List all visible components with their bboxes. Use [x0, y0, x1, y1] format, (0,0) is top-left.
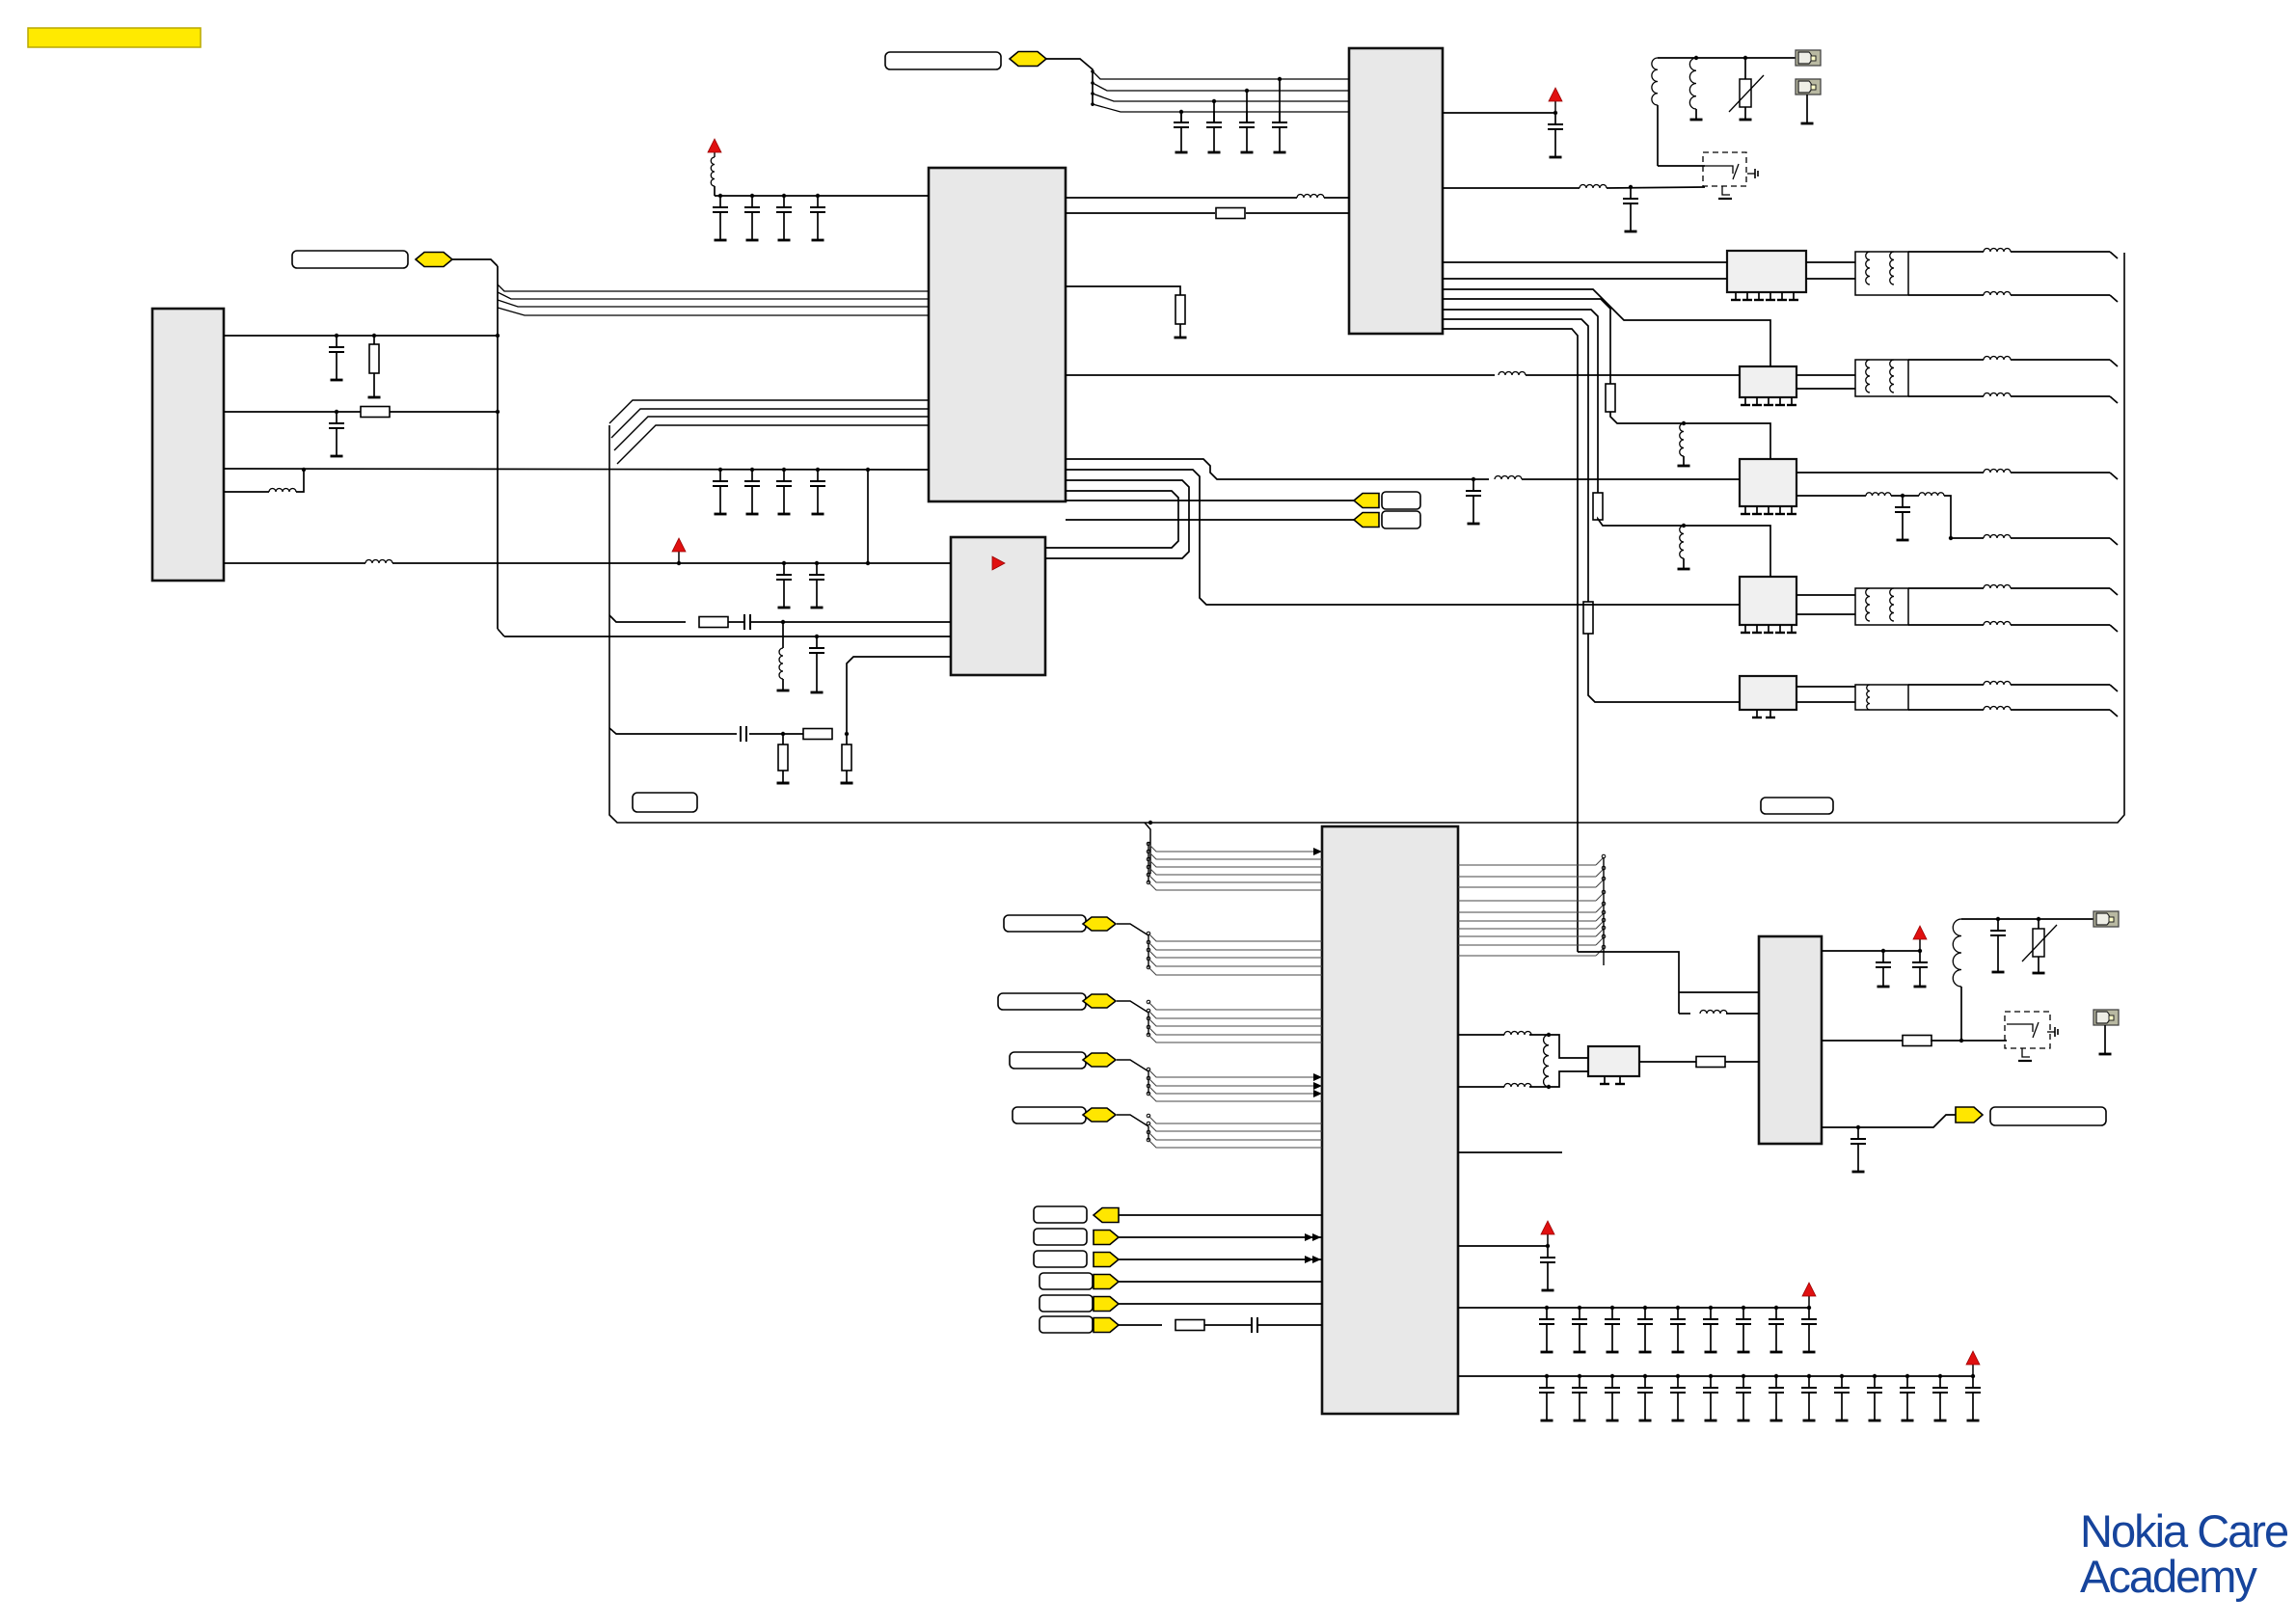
filter Z7540 — [1727, 251, 1806, 292]
matching M7541 — [1855, 360, 1908, 396]
wire M7540 top out — [1908, 249, 2118, 258]
capacitor C2001 — [329, 336, 344, 380]
wire bundle CTRL1 — [1117, 924, 1322, 975]
capacitor C2010 — [776, 561, 792, 608]
inductor L7542 shunt — [1678, 421, 1690, 466]
wire U3 flag1 — [1066, 500, 1354, 501]
wire U1 to U2 line2 — [1066, 208, 1349, 219]
wire U2 rx5 feed — [1443, 310, 1598, 493]
net flag CLK — [1094, 1231, 1119, 1245]
wire U2 rx6 feed — [1443, 319, 1588, 602]
transistor V6010 — [2007, 1022, 2058, 1061]
wire INT to U4 — [1119, 1303, 1322, 1305]
antenna switch N7510 dashed — [1703, 152, 1746, 186]
capacitor bank row2 C2820-C2833 — [1458, 1351, 1981, 1421]
capacitor C7503 — [1206, 99, 1222, 152]
wire Z7540 out — [1806, 262, 1855, 279]
wire X2001 pin4 to U3 — [224, 560, 951, 564]
net label box CLK — [1034, 1229, 1087, 1245]
wire main bus — [609, 253, 2124, 823]
filter Z7542 — [1740, 459, 1796, 506]
wire U2 VDD — [1443, 112, 1555, 114]
capacitor C6001 — [1876, 949, 1891, 987]
net label box PWR — [1040, 1316, 1093, 1333]
net flag RFCLK — [1010, 52, 1046, 67]
capacitor C7505 — [1548, 113, 1563, 157]
wire U2 rx4 feed — [1443, 299, 1610, 384]
inductor L7510 — [1652, 58, 1705, 166]
filter Z7544 ground pins — [1752, 710, 1775, 717]
filter Z6001 mixer — [1588, 1046, 1639, 1076]
wire M7543 top out — [1908, 585, 2118, 596]
trimmer capacitor C7512 — [1729, 56, 1764, 120]
net label box CTRL1 — [1004, 915, 1086, 932]
wire Z7542 top out — [1796, 470, 2118, 480]
inductor L6010 — [1953, 919, 1963, 1042]
trimmer capacitor C6012 — [2022, 917, 2057, 973]
wire Z7543 out — [1796, 595, 1855, 614]
wire X2001 pin3 — [224, 469, 929, 470]
svg-text:Academy: Academy — [2080, 1551, 2257, 1602]
capacitor C2003 — [713, 468, 728, 514]
inductor L6001 shunt — [1544, 1035, 1549, 1087]
wire M7543 bot out — [1908, 622, 2118, 632]
capacitor C2005 — [776, 468, 792, 514]
net flag RST — [1094, 1208, 1119, 1223]
wire U4 right bus fan — [1458, 854, 1606, 965]
wire bus merge1 — [609, 400, 929, 423]
matching M7544 — [1855, 685, 1908, 710]
wire fan U2 line3 — [1091, 92, 1349, 101]
wire mixer out — [1639, 1057, 1759, 1068]
capacitor C7541 — [1466, 477, 1481, 524]
antenna X6011 — [2093, 1010, 2119, 1054]
wire U4 rf2 — [1458, 1084, 1551, 1090]
IC N7501 RF transceiver U2 — [1349, 48, 1443, 334]
capacitor C2801 — [1540, 1246, 1555, 1290]
wire rc up to U3 — [845, 657, 951, 736]
wire bus merge4 — [617, 425, 929, 464]
filter Z7543 ground pins — [1741, 625, 1796, 633]
wire U4 vdd — [1458, 1244, 1550, 1248]
wire U2 rx3 to Z7541 top — [1443, 289, 1770, 366]
net label box TX1 — [1382, 492, 1420, 509]
net label box DATA — [1034, 1251, 1087, 1267]
net label box GND2 — [1761, 798, 1833, 814]
wire flag to vertical — [452, 259, 498, 266]
wire U1 out3 to Z7543 — [1066, 470, 1740, 605]
resistor R7532 — [777, 732, 790, 783]
net flag EN — [1094, 1275, 1119, 1289]
wire Z7541 out — [1796, 375, 1855, 389]
resistor R7542 — [1606, 384, 1615, 412]
net flag CTRL4 — [1083, 1108, 1116, 1122]
wire bus merge3 — [614, 417, 929, 450]
wire U1 tx to Z7541 — [1066, 372, 1740, 376]
net flag CTRL2 — [1083, 994, 1116, 1008]
wire vertical bus X516 — [498, 266, 504, 636]
antenna switch N6010 dashed — [2005, 1012, 2050, 1048]
capacitor C2002 — [329, 410, 344, 456]
wire bundle CTRL2 — [1117, 1000, 1322, 1042]
wire flag to fan — [1046, 59, 1093, 106]
mixer Z6001 ground pins — [1600, 1076, 1625, 1084]
wire U5 rf out — [1822, 1036, 2007, 1046]
net flag DATA — [1094, 1253, 1119, 1267]
wire U3 flag2 — [1066, 519, 1354, 521]
wire U1 to U2 line1 — [1066, 195, 1349, 199]
wire flag line to U3 — [504, 636, 951, 637]
wire U1 bias — [1066, 286, 1180, 295]
IC N7520 power amplifier U1 — [929, 168, 1066, 501]
resistor R7544 — [1583, 602, 1593, 634]
wire M7544 top out — [1908, 682, 2118, 692]
capacitor C6015 — [1850, 1125, 1866, 1172]
wire U5 flag out — [1822, 1115, 1956, 1127]
wire aux to U5 — [1578, 952, 1679, 1014]
net flag BTOUT — [1956, 1107, 1983, 1123]
wire ant feed — [1658, 57, 1796, 59]
filter Z7541 — [1740, 366, 1796, 397]
capacitor C7506 — [1623, 185, 1638, 231]
resistor R7530 — [699, 617, 728, 628]
capacitor C2004 — [744, 468, 760, 514]
wire VPA to U1 — [715, 195, 929, 197]
wire DATA to U4 — [1119, 1256, 1322, 1263]
wire U5 loop top — [1679, 991, 1759, 993]
resistor R7531 series — [803, 729, 832, 740]
wire bundle CTRL3 — [1117, 1060, 1322, 1101]
transistor V7510 — [1705, 164, 1758, 199]
power flag VR1 — [1549, 88, 1562, 115]
red marker U3 — [992, 556, 1005, 570]
wire fan line 2 to U1 — [498, 292, 929, 299]
wire feed Z7543 top — [1598, 519, 1770, 577]
wire fan U2 line1 — [1091, 69, 1349, 79]
inductor L7530 shunt — [777, 620, 790, 690]
net label box VBATT — [292, 251, 408, 268]
wire EN to U4 — [1119, 1281, 1322, 1283]
net label box INT — [1040, 1295, 1093, 1312]
net label box RFCLK — [885, 52, 1001, 69]
net label box CTRL3 — [1010, 1052, 1086, 1069]
wire M7540 bot out — [1908, 292, 2118, 303]
wire feed Z7542 top — [1610, 412, 1770, 459]
wire rc row — [749, 733, 803, 735]
wire PWR to U4 — [1119, 1317, 1322, 1333]
inductor L7511 — [1689, 56, 1702, 120]
wire fan line 4 to U1 — [498, 308, 929, 315]
wire U2 rx2 to Z7540 — [1443, 278, 1727, 280]
antenna X7510 — [1796, 50, 1821, 66]
wire U5 loop bottom — [1679, 1011, 1759, 1014]
antenna X7511 — [1796, 79, 1821, 123]
IC N6000 bluetooth module U5 — [1759, 936, 1822, 1144]
power flag VBAT2 — [672, 538, 686, 565]
wire Z7542 bot out — [1796, 493, 2118, 545]
wire M7544 bot out — [1908, 707, 2118, 717]
IC D2800 baseband processor U4 — [1322, 826, 1458, 1414]
power flag VD1 — [1541, 1221, 1554, 1246]
resistor R2002 series — [361, 407, 390, 418]
wire balun to mixer — [1549, 1035, 1588, 1087]
capacitor C7504 — [1174, 110, 1189, 152]
net flag INT — [1094, 1297, 1119, 1312]
capacitor C6011 — [1990, 917, 2006, 972]
power flag VPA — [708, 139, 721, 196]
capacitor C7502 — [1239, 89, 1255, 152]
wire CLK to U4 — [1119, 1233, 1322, 1241]
wire bundle CTRL4 — [1117, 1114, 1322, 1148]
net label box EN — [1040, 1273, 1093, 1289]
filter Z7542 ground pins — [1741, 506, 1796, 514]
wire U5 vdd — [1822, 950, 1920, 952]
filter Z7544 — [1740, 676, 1796, 710]
capacitor C6002 — [1912, 949, 1928, 987]
net flag VBATT — [416, 253, 452, 267]
resistor R7520 — [1175, 295, 1187, 338]
wire bus branch1 — [609, 615, 686, 622]
capacitor bank row1 C2810-C2818 — [1458, 1283, 1817, 1352]
net label box TX2 — [1382, 511, 1420, 528]
capacitor C7530 series — [728, 614, 951, 630]
highlight bar — [28, 28, 201, 47]
resistor R7533 — [841, 734, 853, 783]
filter Z7543 — [1740, 577, 1796, 625]
net flag CTRL1 — [1083, 917, 1116, 931]
IC N7502 front-end module U3 — [951, 537, 1045, 675]
net label box CTRL4 — [1013, 1107, 1086, 1123]
capacitor C7532 series — [741, 726, 951, 742]
logo Nokia Care Academy — [2080, 1505, 2288, 1602]
capacitor C7521 — [744, 194, 760, 240]
wire M7541 top out — [1908, 357, 2118, 366]
wire U4 rf1 — [1458, 1032, 1551, 1038]
net label box BTOUT — [1990, 1107, 2106, 1125]
resistor R7543 — [1593, 493, 1603, 520]
connector X2001 board-to-board — [152, 309, 224, 581]
wire U2 TXout — [1443, 185, 1705, 189]
wire fan line 1 to U1 — [498, 284, 929, 291]
net flag TX2 — [1354, 513, 1379, 528]
svg-text:Nokia Care: Nokia Care — [2080, 1505, 2288, 1556]
net flag PWR — [1094, 1318, 1119, 1333]
capacitor C7531 — [809, 635, 824, 692]
wire U1 out2 to Z7542 — [1066, 459, 1740, 479]
wire X2001 pin1 — [224, 334, 500, 338]
wire M7541 bot out — [1908, 393, 2118, 404]
wire junction X900 — [866, 468, 870, 565]
wire bus drop to U4 — [1145, 821, 1152, 874]
wire feed Z7544 left — [1588, 634, 1740, 702]
wire U2 rx1 to Z7540 — [1443, 261, 1727, 263]
matching M7540 — [1855, 252, 1908, 295]
net label box CTRL2 — [998, 993, 1086, 1010]
wire U4 aux line — [1458, 1151, 1562, 1153]
wire bus merge2 — [611, 409, 929, 438]
wire bus fan U4 top — [1147, 842, 1322, 890]
wire U1 loop4 — [1045, 491, 1178, 548]
wire fan line 3 to U1 — [498, 300, 929, 307]
net flag TX1 — [1354, 494, 1379, 508]
antenna X6010 — [2093, 911, 2119, 927]
capacitor C7501 — [1272, 77, 1287, 152]
capacitor C7522 — [776, 194, 792, 240]
filter Z7541 ground pins — [1741, 397, 1796, 405]
power flag VBT — [1913, 926, 1927, 951]
wire X2001 pin3 stub — [224, 468, 306, 492]
matching M7543 — [1855, 588, 1908, 625]
wire U1 loop3 — [1045, 480, 1189, 558]
wire bt ant feed — [1961, 918, 2093, 920]
wire RST to U4 — [1119, 1214, 1322, 1216]
capacitor C2011 — [809, 561, 824, 608]
wire U2 aux feed — [1443, 329, 1578, 952]
capacitor C2006 — [810, 468, 825, 514]
wire bus branch2 — [609, 728, 737, 734]
capacitor C7520 — [713, 194, 728, 240]
wire X2001 pin2 — [224, 410, 500, 414]
wire fan U2 line4 — [1091, 102, 1349, 112]
inductor L7543 shunt — [1678, 524, 1690, 569]
net label box GND1 — [633, 793, 697, 812]
capacitor C7523 — [810, 194, 825, 240]
wire fan U2 line2 — [1091, 81, 1349, 91]
filter Z7540 ground pins — [1731, 292, 1798, 300]
wire Z7544 out — [1796, 687, 1855, 702]
net flag CTRL3 — [1083, 1053, 1116, 1067]
resistor R2001 — [335, 334, 381, 397]
capacitor C7542 — [1895, 496, 1910, 540]
net label box RST — [1034, 1206, 1087, 1223]
